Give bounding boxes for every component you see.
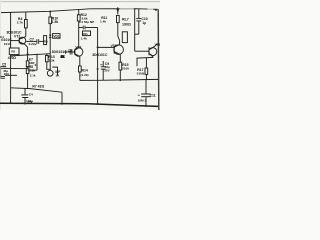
svg-text:1k: 1k — [61, 54, 65, 58]
svg-text:25V: 25V — [27, 100, 32, 104]
svg-text:VT5: VT5 — [155, 43, 160, 47]
svg-text:C4 50µ NP: C4 50µ NP — [79, 20, 94, 24]
svg-text:VT3: VT3 — [75, 46, 81, 50]
svg-text:1.4k: 1.4k — [100, 20, 106, 24]
svg-text:VD1: VD1 — [53, 35, 59, 39]
svg-text:510Ω: 510Ω — [137, 71, 145, 75]
svg-text:190Ω: 190Ω — [122, 23, 131, 27]
svg-text:VT4: VT4 — [111, 44, 117, 48]
svg-text:3.1k: 3.1k — [30, 74, 36, 78]
svg-text:10M 2: 10M 2 — [138, 99, 147, 103]
svg-text:R9: R9 — [44, 40, 48, 44]
svg-text:5100: 5100 — [122, 66, 129, 70]
svg-text:R11: R11 — [83, 32, 89, 36]
svg-text:C2: C2 — [68, 49, 72, 53]
svg-text:43R: 43R — [29, 61, 35, 65]
svg-text:R5: R5 — [11, 50, 15, 54]
svg-text:C11: C11 — [150, 93, 156, 97]
svg-text:3DG101C: 3DG101C — [92, 53, 108, 57]
svg-text:1.4k: 1.4k — [81, 37, 87, 41]
svg-text:C5: C5 — [2, 63, 6, 67]
svg-text:25V: 25V — [4, 72, 9, 76]
svg-text:3DG101C: 3DG101C — [52, 50, 68, 54]
svg-text:25V: 25V — [104, 68, 110, 72]
svg-text:C7: C7 — [30, 37, 34, 41]
svg-text:RL7: RL7 — [122, 18, 129, 22]
svg-text:1.5k: 1.5k — [52, 20, 59, 24]
svg-text:2.7k: 2.7k — [17, 21, 23, 25]
svg-text:C4: C4 — [29, 93, 33, 97]
svg-text:1µ: 1µ — [142, 21, 146, 25]
svg-text:0.22µ: 0.22µ — [29, 42, 37, 46]
svg-text:1.3k: 1.3k — [48, 59, 54, 63]
svg-text:101C: 101C — [4, 42, 12, 46]
svg-text:R7 43Ω: R7 43Ω — [32, 85, 44, 89]
svg-text:VT2: VT2 — [14, 34, 20, 38]
svg-text:470Ω: 470Ω — [8, 56, 17, 60]
svg-text:(1.2k): (1.2k) — [81, 73, 89, 77]
svg-text:3.3k: 3.3k — [29, 69, 35, 73]
